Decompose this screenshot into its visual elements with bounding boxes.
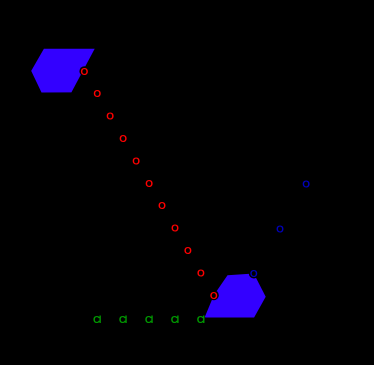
svg-text:O: O — [106, 112, 114, 123]
svg-text:O: O — [197, 268, 205, 279]
svg-text:O: O — [210, 291, 218, 302]
oxygen O3 — [105, 111, 115, 123]
ring 1 (blue filled pyranose hexagon, top-left) — [31, 49, 94, 93]
svg-text:O: O — [132, 156, 140, 167]
blue oxygen B3 (on ring 2 top-right vertex) — [249, 269, 259, 281]
chlorine Cl1 — [92, 314, 102, 326]
svg-text:O: O — [302, 180, 310, 191]
svg-text:O: O — [158, 201, 166, 212]
svg-text:O: O — [81, 67, 89, 78]
svg-text:O: O — [93, 89, 101, 100]
oxygen O5 — [131, 156, 141, 168]
blue oxygen B2 — [275, 224, 285, 236]
svg-text:O: O — [145, 179, 153, 190]
svg-text:O: O — [119, 134, 127, 145]
oxygen O7 — [157, 201, 167, 213]
svg-text:O: O — [250, 269, 258, 280]
chlorine Cl3 — [144, 314, 154, 326]
oxygen O4 — [118, 133, 128, 145]
oxygen O8 — [170, 223, 180, 235]
oxygen O1 (ring O of ring 1) — [79, 66, 89, 78]
svg-text:O: O — [171, 224, 179, 235]
chlorine Cl2 — [118, 314, 128, 326]
chlorine Cl5 (on ring 2 bottom-left vertex) — [196, 314, 206, 326]
oxygen O2 — [92, 89, 102, 101]
chlorine Cl4 — [170, 314, 180, 326]
oxygen O6 — [144, 178, 154, 190]
oxygen O11 (ring O of ring 2) — [209, 290, 219, 302]
ring 2 (blue filled pyranose hexagon, bottom-right) — [205, 274, 266, 318]
oxygen O10 — [196, 268, 206, 280]
svg-text:O: O — [184, 246, 192, 257]
svg-text:O: O — [276, 225, 284, 236]
blue oxygen B1 — [301, 179, 311, 191]
oxygen O9 — [183, 245, 193, 257]
